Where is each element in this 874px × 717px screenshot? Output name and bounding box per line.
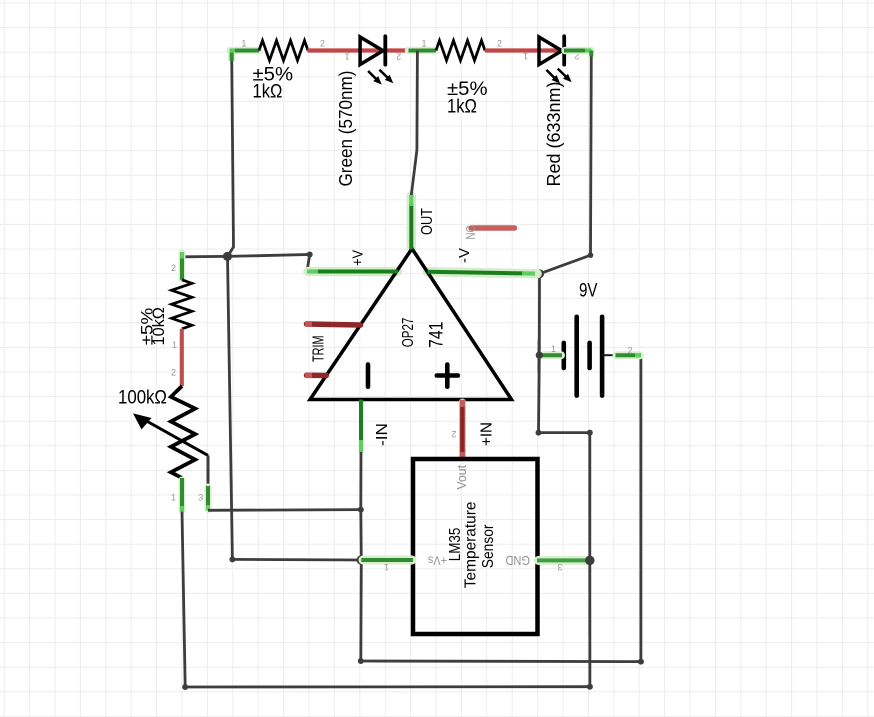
svg-text:Vout: Vout <box>455 464 469 489</box>
wire battery branch horizontal <box>539 431 590 434</box>
resistor R3 10k <box>138 252 192 386</box>
svg-text:3: 3 <box>557 562 562 572</box>
svg-text:1: 1 <box>523 51 528 61</box>
svg-text:Green (570nm): Green (570nm) <box>336 71 356 187</box>
svg-text:2: 2 <box>627 346 632 356</box>
svg-text:-IN: -IN <box>374 423 391 446</box>
svg-text:741: 741 <box>427 322 448 349</box>
svg-text:1: 1 <box>421 38 426 48</box>
wire R2 to LED2 (red) <box>485 48 564 52</box>
wire R1 to LED1 (red) <box>308 48 409 52</box>
svg-text:GND: GND <box>506 553 531 567</box>
wire +Vs node down to lower rail <box>358 560 364 664</box>
svg-text:1: 1 <box>551 344 556 354</box>
op-amp -IN pin <box>361 400 391 510</box>
svg-text:2: 2 <box>396 51 401 61</box>
op-amp -V pin to node <box>428 248 536 274</box>
op-amp +IN pin (red to LM35 Vout) <box>451 400 495 459</box>
potentiometer R4 100k <box>118 368 208 512</box>
op-amp NC pin <box>463 226 515 240</box>
wire node A to 10k pin 2 <box>182 255 228 258</box>
svg-text:3: 3 <box>198 493 203 503</box>
wire pot pin1 down to bottom rail <box>182 512 185 687</box>
svg-text:Temperature: Temperature <box>463 501 480 588</box>
battery BT1 9V <box>536 281 641 396</box>
wire battery minus column <box>536 274 543 436</box>
svg-text:OP27: OP27 <box>400 318 417 348</box>
svg-text:2: 2 <box>320 38 325 48</box>
resistor R1 1k <box>241 38 325 102</box>
wire node A down the left side <box>228 256 233 559</box>
node +Vs junction dot <box>357 555 367 565</box>
wire battery pin 2 vertical <box>640 355 643 661</box>
svg-text:LM35: LM35 <box>447 528 464 562</box>
svg-text:NC: NC <box>463 226 478 240</box>
node -V junction dot <box>535 269 544 278</box>
op-amp TRIM pins <box>305 324 361 376</box>
svg-text:2: 2 <box>451 429 456 439</box>
wire right rail up from bottom to GND node <box>588 560 591 686</box>
svg-text:OUT: OUT <box>419 208 436 235</box>
LED D1 green <box>336 36 401 186</box>
wire wiper horizontal to -IN node <box>208 507 364 513</box>
wire left branch to +Vs node <box>229 556 361 562</box>
svg-text:1kΩ: 1kΩ <box>447 96 477 117</box>
svg-text:Sensor: Sensor <box>480 524 497 568</box>
svg-text:1: 1 <box>172 340 177 350</box>
svg-text:9V: 9V <box>579 281 598 302</box>
svg-text:2: 2 <box>171 368 176 378</box>
LM35 GND pin <box>506 553 590 572</box>
wire top-left corner down from R1 pin 1 <box>228 49 260 256</box>
svg-text:2: 2 <box>171 263 176 273</box>
svg-text:+Vs: +Vs <box>428 554 447 568</box>
node A junction dot <box>223 252 232 261</box>
svg-text:1: 1 <box>384 562 389 572</box>
wire bottom rail <box>182 684 593 690</box>
wire from node A to +V jog <box>228 252 313 272</box>
node GND junction dot <box>585 556 595 566</box>
wire -IN node down to +Vs node <box>359 510 362 560</box>
resistor R2 1k <box>421 38 502 117</box>
svg-text:TRIM: TRIM <box>311 336 328 363</box>
svg-text:+IN: +IN <box>479 422 496 446</box>
wire LED1 to R2 (green) + junction to op-amp OUT <box>409 47 436 55</box>
svg-text:Red (633nm): Red (633nm) <box>544 82 564 187</box>
svg-text:100kΩ: 100kΩ <box>118 388 167 409</box>
op-amp U1 <box>310 249 512 400</box>
svg-text:2: 2 <box>497 38 502 48</box>
wire lower rail to battery pin 2 <box>361 659 644 665</box>
svg-text:+V: +V <box>350 250 367 266</box>
svg-text:1: 1 <box>345 51 350 61</box>
LM35 U2 temperature sensor <box>413 459 538 634</box>
LED D2 red <box>523 36 580 186</box>
svg-text:10kΩ: 10kΩ <box>150 307 168 346</box>
wire right vertical down to -V node <box>540 51 592 274</box>
svg-text:1: 1 <box>171 493 176 503</box>
svg-text:1kΩ: 1kΩ <box>253 82 283 103</box>
op-amp OUT pin <box>411 51 436 250</box>
LM35 +Vs pin <box>361 554 447 573</box>
svg-text:1: 1 <box>241 38 246 48</box>
highlighted supply net halo <box>308 196 537 274</box>
op-amp +V pin <box>307 250 398 272</box>
wire GND node up to battery branch <box>587 430 593 561</box>
svg-text:-V: -V <box>456 248 473 263</box>
wire LED2 cathode to right vertical (green) <box>565 47 591 55</box>
